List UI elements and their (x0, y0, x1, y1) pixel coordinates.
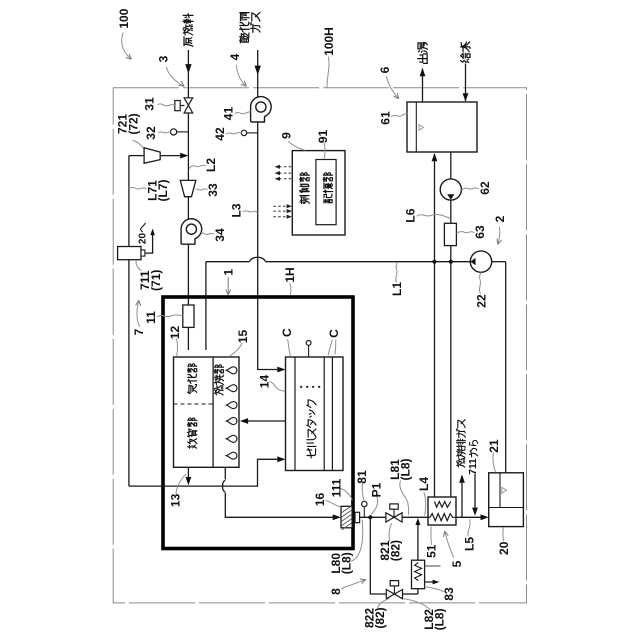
junction dots on L1 (432, 260, 436, 264)
cell stack 14 box (286, 357, 344, 471)
svg-text:11: 11 (144, 311, 158, 324)
svg-text:2: 2 (493, 215, 507, 222)
svg-text:20: 20 (138, 233, 149, 245)
svg-text:(L8): (L8) (340, 552, 354, 574)
wire: bypass line 8 (370, 517, 386, 594)
valve 31 (187, 113, 189, 180)
pump 22 (470, 251, 491, 272)
svg-text:12: 12 (168, 326, 182, 340)
svg-text:15: 15 (236, 330, 250, 344)
svg-text:1: 1 (222, 269, 236, 276)
svg-text:100: 100 (117, 8, 131, 28)
svg-text:(71): (71) (149, 270, 163, 291)
hot water tank 61 (407, 102, 477, 152)
svg-text:22: 22 (475, 294, 489, 308)
lower coil (428, 514, 456, 521)
label: control part (300, 173, 310, 204)
heat exchanger 51 (428, 497, 456, 525)
svg-text:41: 41 (222, 107, 236, 121)
wire: water line into vaporizer (205, 262, 207, 350)
svg-text:42: 42 (213, 127, 227, 141)
svg-text:(82): (82) (373, 607, 387, 628)
svg-text:5: 5 (450, 560, 464, 567)
radiator 83 (412, 560, 425, 589)
svg-text:51: 51 (425, 544, 439, 558)
control signal arrows (out) (279, 166, 292, 168)
wire: reformer outlet down (187, 467, 189, 479)
sensor 81 (363, 507, 365, 518)
component 11 (183, 305, 194, 327)
svg-text:6: 6 (378, 66, 392, 73)
svg-text:711: 711 (468, 458, 479, 475)
svg-text:L5: L5 (463, 537, 477, 551)
wire: recycle/anode feed line (129, 459, 279, 486)
label: combustion exhaust gas (456, 420, 465, 467)
valve 822 (386, 590, 394, 599)
branch gas unit 711 (118, 247, 141, 260)
svg-text:7: 7 (132, 328, 146, 335)
wire: tank61 left line to HX51 (434, 154, 436, 498)
sensor 32 (177, 131, 189, 133)
svg-text:100H: 100H (322, 27, 336, 56)
svg-text:9: 9 (280, 132, 294, 139)
blower 41 (257, 119, 259, 297)
wire: hot water out (deyu) (422, 69, 424, 103)
svg-text:21: 21 (487, 439, 501, 453)
combustor flames (226, 367, 237, 374)
svg-text:(L7): (L7) (156, 180, 170, 202)
label: hot water out (418, 43, 428, 64)
label: feed water (461, 42, 471, 63)
svg-text:63: 63 (473, 225, 487, 239)
wire: fuel into reformer (187, 327, 189, 350)
wire: recycle line into fuel line (160, 155, 182, 157)
svg-text:(L8): (L8) (398, 459, 412, 481)
svg-text:(82): (82) (388, 540, 402, 561)
svg-text:L6: L6 (403, 208, 417, 222)
svg-text:91: 91 (316, 130, 330, 144)
condensate tank 20/21 (489, 473, 524, 527)
svg-text:4: 4 (228, 53, 242, 60)
label: combustor (214, 365, 223, 395)
component 16/111 hatched (341, 506, 352, 530)
label: memory part (323, 173, 333, 203)
svg-text:L1: L1 (390, 282, 404, 296)
memory unit 91 box (316, 160, 336, 225)
hop of exhaust over recycle line (223, 480, 226, 492)
wire: riser from tank 20 (505, 262, 507, 473)
housing border 100H (113, 88, 526, 603)
svg-text:111: 111 (330, 478, 344, 497)
svg-text:(72): (72) (127, 113, 141, 134)
reformer unit box (kika-bu/kaishitsu-bu/nensho-bu) (174, 357, 240, 467)
fuel cell module 1/1H thick box (163, 297, 353, 549)
wire: raw fuel inlet line (187, 50, 189, 98)
desulfurizer 33 (180, 180, 196, 196)
wire: air line to stack (258, 297, 279, 370)
pump 62 (440, 179, 461, 200)
upper coil (435, 502, 451, 508)
label: raw fuel (gennenryo) (183, 14, 193, 47)
wire: main exhaust line L80/L5 (360, 516, 387, 518)
stack terminal (308, 346, 310, 358)
svg-text:L3: L3 (230, 203, 244, 217)
svg-text:62: 62 (478, 181, 492, 195)
wire: L6 line tank61-62-63 (450, 152, 452, 179)
svg-text:L2: L2 (204, 158, 218, 172)
arrow on fuel inlet (185, 64, 191, 73)
label: reformer (188, 418, 197, 448)
svg-text:16: 16 (313, 493, 327, 507)
wire: oxidant gas inlet line (257, 50, 259, 98)
label: oxidant gas (240, 13, 250, 43)
sensor 42 (247, 132, 258, 134)
svg-text:3: 3 (157, 55, 171, 62)
svg-text:L4: L4 (417, 477, 431, 491)
svg-text:C: C (280, 328, 294, 337)
stack dots (300, 386, 302, 388)
wire: combustor exhaust down (224, 467, 226, 479)
svg-text:14: 14 (257, 375, 271, 389)
svg-text:20: 20 (497, 541, 511, 555)
svg-text:8: 8 (329, 588, 343, 595)
arrow on oxidant inlet (255, 66, 261, 75)
svg-text:(L8): (L8) (433, 608, 447, 630)
wire: radiator to L4 riser (417, 520, 419, 561)
svg-text:31: 31 (143, 97, 157, 111)
combustion exhaust gas up arrow (461, 476, 463, 517)
sensor signal arrows (in) (273, 205, 287, 207)
svg-text:81: 81 (355, 470, 369, 484)
svg-text:32: 32 (144, 126, 158, 140)
label: vaporizer (188, 364, 197, 394)
component 63 (444, 223, 456, 245)
svg-text:C: C (327, 329, 341, 338)
wire: stack to combustor (247, 420, 286, 422)
radiator heat-out arrow (425, 581, 434, 583)
wire: 711 to 20 arrow (145, 230, 153, 253)
svg-text:33: 33 (206, 183, 220, 197)
svg-text:83: 83 (442, 587, 456, 601)
svg-text:13: 13 (169, 493, 183, 507)
valve 821 (386, 513, 394, 522)
svg-text:1H: 1H (283, 267, 297, 282)
svg-text:61: 61 (379, 111, 393, 125)
wire: L71 riser from 711 to 721 (128, 156, 130, 247)
radiator side line (425, 565, 441, 567)
svg-text:34: 34 (213, 228, 227, 242)
control unit 9 box (292, 151, 345, 235)
pump 34 (187, 240, 189, 305)
label: cell stack (307, 400, 316, 458)
svg-text:P1: P1 (370, 482, 384, 497)
blower 721 (144, 148, 160, 164)
wire: L1 water line (206, 261, 250, 263)
from 711 down arrow (474, 474, 476, 510)
hop over air line (250, 257, 266, 261)
wire: feed water in (kyusui) (465, 64, 467, 102)
